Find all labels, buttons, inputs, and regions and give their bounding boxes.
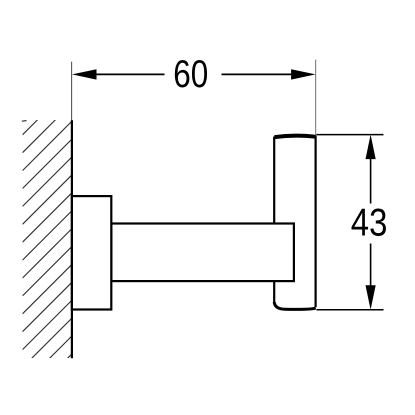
- post (vertical bar): [274, 136, 316, 310]
- svg-text:43: 43: [351, 201, 388, 244]
- extension line bottom (43): [317, 309, 384, 311]
- extension line top (43): [317, 134, 384, 136]
- dimension 43: upper shaft: [370, 158, 372, 204]
- extension line left (60): [71, 62, 73, 121]
- dimension 43: bottom arrowhead: [366, 285, 376, 310]
- svg-text:60: 60: [173, 53, 208, 96]
- extension line right (60): [315, 60, 317, 137]
- dimension 43: top arrowhead: [366, 135, 376, 160]
- dimension 60: left arrowhead: [72, 69, 97, 79]
- wall plate: [72, 196, 111, 309]
- dimension 43: lower shaft: [370, 244, 372, 287]
- hatch corner dash: [22, 120, 27, 123]
- arm (horizontal bar): [111, 224, 294, 282]
- wall surface line: [71, 120, 73, 358]
- wall hatching: [23, 86, 72, 404]
- dimension 60: right arrowhead: [291, 69, 316, 79]
- dimension 60: line left segment: [96, 73, 165, 75]
- dimension 60: line right segment: [222, 73, 293, 75]
